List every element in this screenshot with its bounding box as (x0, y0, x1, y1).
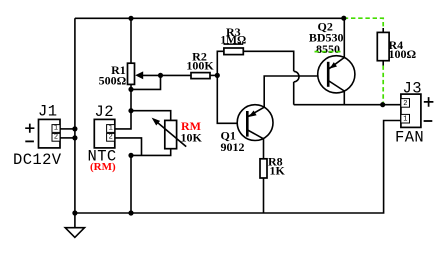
wire output line to J3 pin2 (294, 104, 401, 106)
svg-text:2: 2 (54, 133, 58, 141)
svg-text:100K: 100K (186, 58, 214, 72)
svg-text:J1: J1 (38, 103, 57, 121)
wire R1 wiper-to-bottom loop (131, 75, 161, 89)
connector J3 (401, 94, 421, 127)
svg-text:100Ω: 100Ω (389, 47, 417, 61)
svg-text:1: 1 (109, 124, 113, 132)
junction top rail / Q2 emitter / R4 dashed (341, 16, 346, 21)
wire hop over Q2 base wire (294, 71, 299, 82)
svg-text:1: 1 (54, 124, 58, 132)
junction R1 bottom (128, 87, 133, 92)
wire R8 bottom to ground rail (263, 178, 265, 213)
connector J1 (39, 119, 61, 147)
junction J1 pin2 / ground (72, 135, 77, 140)
green dashed strike on 8550 (315, 51, 342, 53)
resistor R1 wiper arrowhead (135, 71, 143, 79)
ground (65, 228, 84, 238)
svg-text:(RM): (RM) (90, 161, 116, 173)
wire Q2 emitter up to top rail (343, 18, 345, 57)
wire Q1 collector down to R8 (263, 139, 265, 159)
junction ground rail / J2 branch (128, 210, 133, 215)
wire J2 top node to RM top (131, 111, 171, 121)
wire R2 right to node (210, 74, 217, 76)
wire R1 bottom / J2 pin1 branch (115, 84, 131, 128)
resistor R2 (191, 73, 210, 79)
wire R3 right to feedback drop (243, 51, 293, 71)
wire R4 top stub (382, 28, 384, 32)
svg-text:10K: 10K (181, 130, 203, 144)
wire green dashed from top rail node to R4 (344, 18, 383, 29)
wire +12V top rail (75, 17, 344, 19)
transistor Q1 (237, 105, 273, 141)
resistor R1 (128, 63, 135, 84)
junction wiper loop (158, 73, 163, 78)
potentiometer RM (152, 118, 187, 149)
junction R2 / R3 / Q1 base (215, 73, 220, 78)
svg-text:500Ω: 500Ω (99, 73, 127, 87)
svg-text:1K: 1K (270, 163, 286, 177)
junction J1 pin1 / +12V (72, 126, 77, 131)
wire J1 pin2 (60, 137, 75, 139)
minus sign J1 (25, 140, 34, 142)
svg-text:J3: J3 (403, 79, 422, 97)
wire R1 wiper to R2 (138, 74, 191, 76)
svg-text:1: 1 (403, 116, 407, 124)
wire ground rail bottom (75, 121, 401, 214)
junction J2 bottom node (128, 153, 133, 158)
wire Q1 emitter up and to Q2 base (264, 76, 328, 107)
svg-text:9012: 9012 (221, 140, 245, 154)
wire J1 pin1 (60, 128, 75, 130)
wire node to R3 left (217, 51, 224, 75)
wire RM bottom loop (131, 149, 171, 156)
plus sign J1 (25, 124, 34, 133)
resistor R4 (377, 32, 389, 60)
strike line on R3 value (224, 43, 244, 45)
wire green dashed from R4 to output node (382, 66, 384, 105)
svg-text:J2: J2 (95, 103, 114, 121)
plus sign J3 (424, 97, 434, 107)
wire Q2 collector down to output line (343, 91, 345, 105)
svg-text:FAN: FAN (395, 129, 424, 147)
wire J2 pin2 to RM bottom (115, 138, 142, 156)
wire J2 lower vertical to ground rail (130, 155, 132, 213)
resistor R8 (260, 159, 267, 178)
svg-text:8550: 8550 (316, 42, 340, 56)
wire feedback drop lower (293, 82, 295, 105)
junction output / R4 dashed (380, 102, 385, 107)
resistor R3 (224, 48, 243, 55)
minus sign J3 (424, 120, 433, 122)
svg-text:2: 2 (403, 100, 407, 108)
wire R1 top branch (130, 18, 132, 63)
wire left vertical (J1 to top rail and to ground) (74, 18, 76, 227)
junction top rail / R1 (128, 16, 133, 21)
junction ground rail left (72, 210, 77, 215)
wire divider node down to Q1 base (217, 75, 247, 123)
connector J2 (94, 119, 115, 147)
junction J2 top node (128, 108, 133, 113)
svg-text:DC12V: DC12V (13, 151, 62, 169)
svg-text:2: 2 (109, 133, 113, 141)
wire R4 bottom stub (382, 61, 384, 66)
transistor Q2 (318, 56, 355, 93)
